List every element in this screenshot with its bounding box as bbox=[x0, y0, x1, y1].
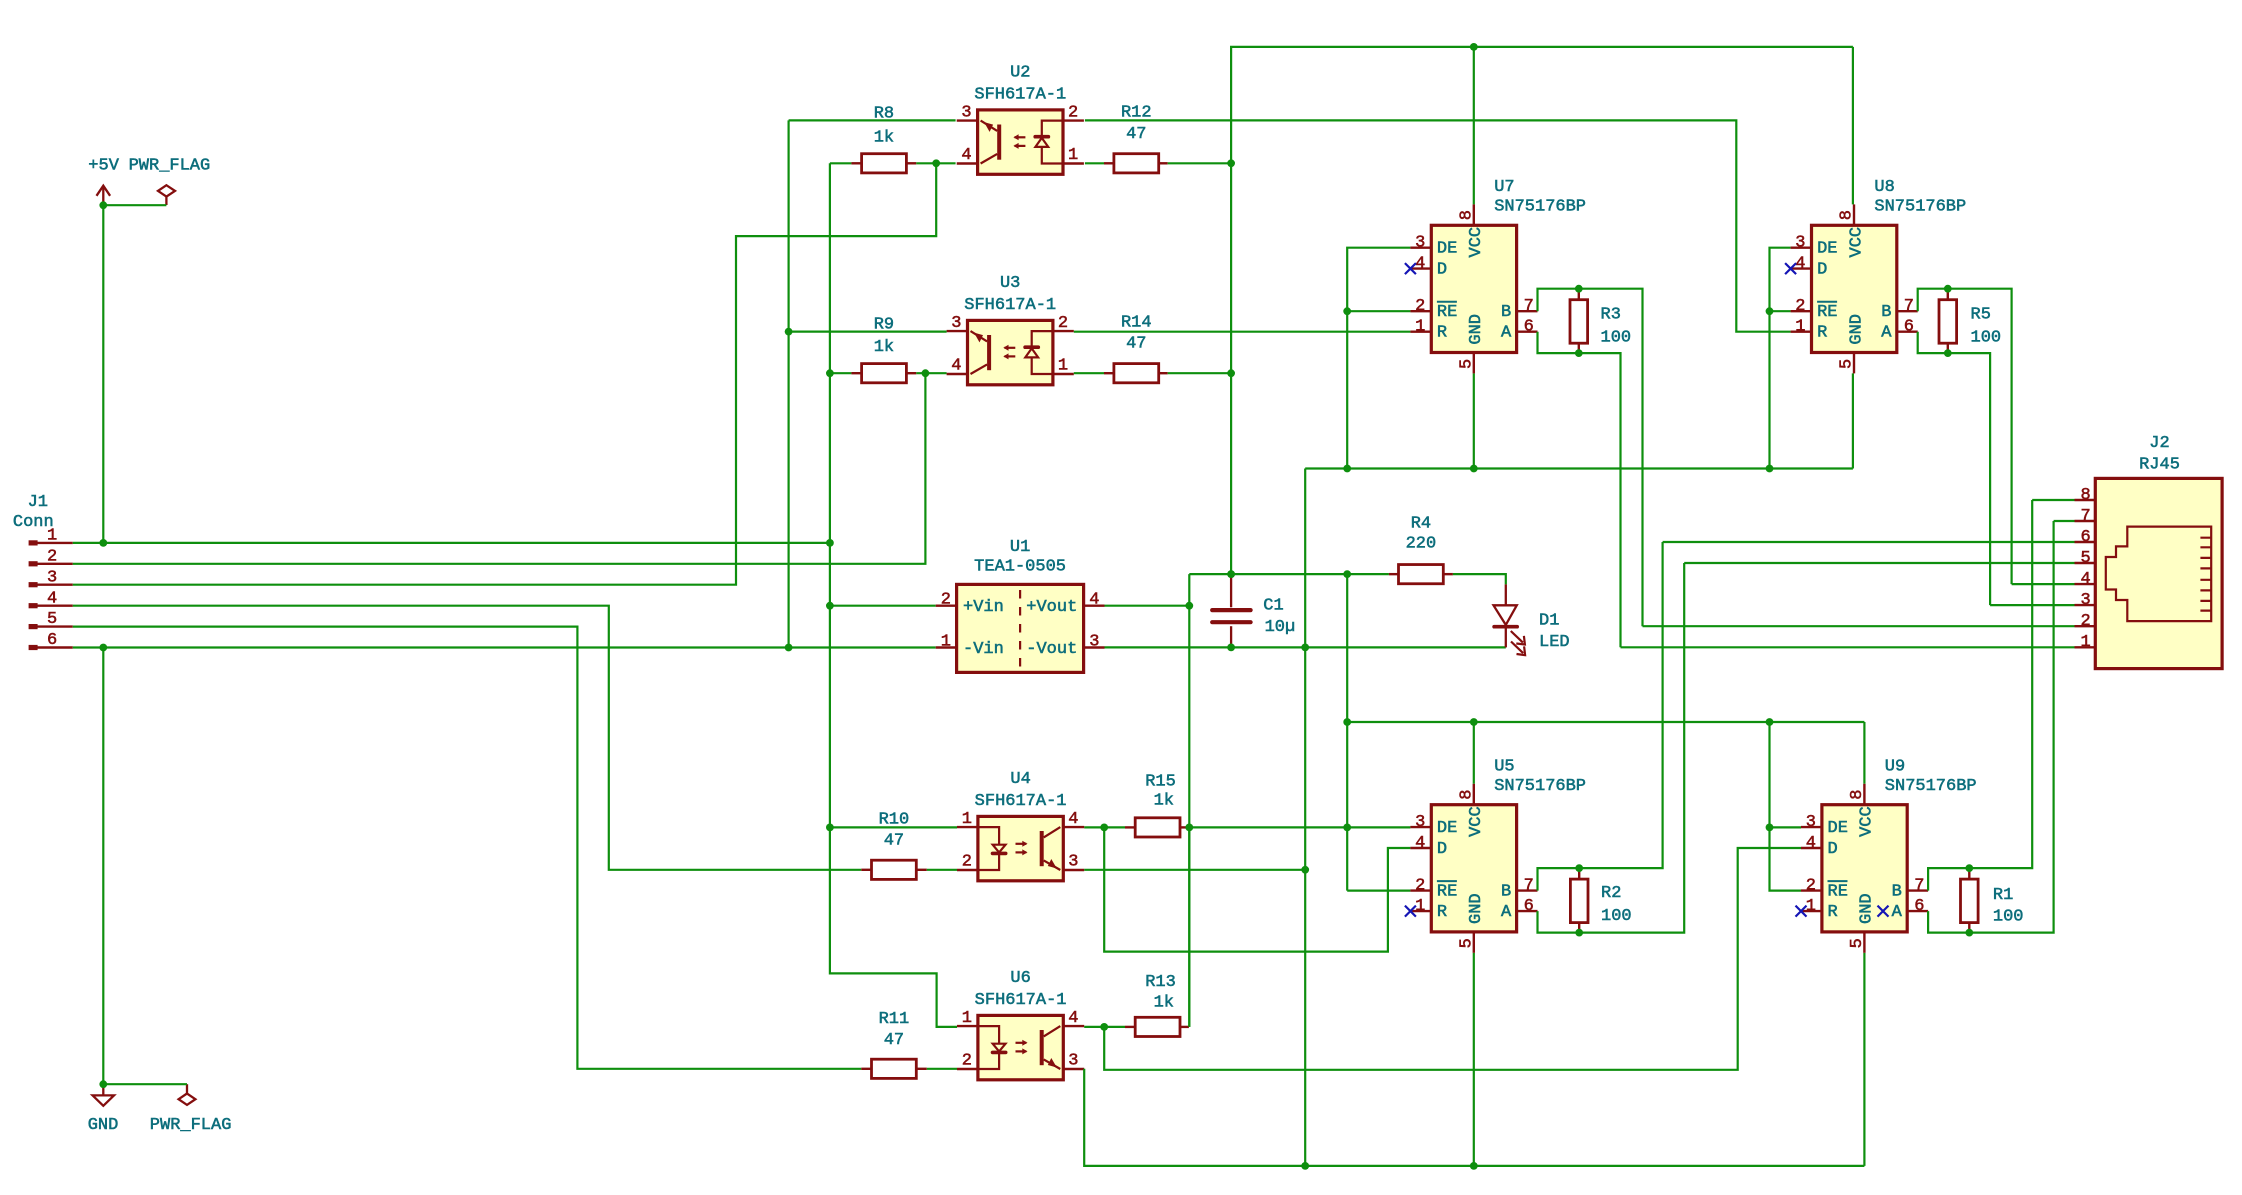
junction +5V at U1 +Vin row bbox=[826, 602, 834, 610]
opto-coupler U6 body bbox=[978, 1015, 1063, 1079]
resistor R15 body bbox=[1135, 818, 1180, 837]
svg-text:2: 2 bbox=[962, 853, 972, 872]
svg-text:2: 2 bbox=[2080, 612, 2090, 631]
svg-text:R11: R11 bbox=[879, 1010, 910, 1029]
svg-text:4: 4 bbox=[1089, 591, 1099, 610]
connector J1 pin 4 bbox=[37, 605, 73, 607]
LED D1 emission arrows bbox=[1511, 631, 1525, 645]
svg-text:100: 100 bbox=[1601, 329, 1632, 348]
wire U8 DE/RE tie to GND2 rail bbox=[1770, 248, 1791, 469]
resistor R1 leads bbox=[1968, 868, 1970, 879]
wire U6 pin 4 to R13 bbox=[1084, 1026, 1125, 1028]
svg-text:5: 5 bbox=[47, 610, 57, 629]
svg-text:B: B bbox=[1501, 882, 1511, 901]
svg-text:RJ45: RJ45 bbox=[2139, 455, 2180, 474]
wire U9 DE/RE tie from VCC2 rail bbox=[1770, 722, 1802, 891]
wire emitter vertical bbox=[787, 120, 789, 647]
svg-text:7: 7 bbox=[1524, 877, 1534, 896]
svg-text:C1: C1 bbox=[1263, 597, 1283, 616]
power flag PWR_FLAG top bbox=[158, 185, 175, 205]
svg-text:R: R bbox=[1437, 903, 1447, 922]
svg-text:U6: U6 bbox=[1010, 969, 1030, 988]
junction GND at J1 pin6 bbox=[99, 644, 107, 652]
svg-text:2: 2 bbox=[1058, 314, 1068, 333]
svg-text:R13: R13 bbox=[1145, 973, 1176, 992]
svg-text:8: 8 bbox=[2080, 486, 2090, 505]
svg-text:D: D bbox=[1817, 260, 1827, 279]
junction U7 RE tie bbox=[1343, 307, 1351, 315]
connector J2 pin 5 bbox=[2075, 562, 2096, 564]
wire R13 up to pull-up node bbox=[1188, 827, 1190, 1027]
svg-text:A: A bbox=[1501, 903, 1512, 922]
power flag PWR_FLAG bottom bbox=[179, 1084, 196, 1105]
junction GND node bbox=[99, 1080, 107, 1088]
junction VCC rail at U7 pin8 bbox=[1470, 43, 1478, 51]
svg-text:4: 4 bbox=[1415, 834, 1425, 853]
svg-text:J2: J2 bbox=[2149, 434, 2169, 453]
svg-text:GND: GND bbox=[1467, 314, 1486, 345]
wire U8 pin 5 to GND2 rail bbox=[1852, 373, 1854, 468]
transceiver U7 left pin stubs bbox=[1410, 248, 1431, 332]
svg-text:D: D bbox=[1437, 840, 1447, 859]
wire U5 RE from tie bbox=[1347, 889, 1410, 891]
transceiver U7 right pin stubs bbox=[1517, 311, 1538, 332]
junction R1 top bbox=[1965, 864, 1973, 872]
opto-coupler U3 pin stubs bbox=[947, 331, 1074, 374]
connector J2 pin 2 bbox=[2075, 625, 2096, 627]
opto-coupler U2 light arrows bbox=[1015, 136, 1026, 138]
svg-text:1k: 1k bbox=[1154, 994, 1174, 1013]
wire VCC2 rail bbox=[1347, 721, 1864, 723]
junction +5V at R9 left bbox=[826, 369, 834, 377]
svg-text:4: 4 bbox=[1068, 1009, 1078, 1028]
svg-text:4: 4 bbox=[951, 357, 961, 376]
wire U1 +Vout to +5Viso riser bbox=[1105, 605, 1190, 607]
svg-text:1: 1 bbox=[1806, 897, 1816, 916]
svg-text:7: 7 bbox=[1914, 877, 1924, 896]
svg-text:TEA1-0505: TEA1-0505 bbox=[974, 558, 1066, 577]
wire GND to PWR_FLAG bbox=[103, 1083, 187, 1085]
wire R12 to +5Viso riser bbox=[1168, 162, 1231, 164]
resistor R14 leads bbox=[1104, 372, 1114, 374]
DC-DC converter U1 body bbox=[957, 584, 1084, 672]
junction riser at C1 top rail bbox=[1227, 570, 1235, 578]
svg-text:1: 1 bbox=[1415, 897, 1425, 916]
svg-text:1: 1 bbox=[2080, 633, 2090, 652]
wire U7 B to R3 top rail bbox=[1538, 289, 1643, 627]
svg-text:DE: DE bbox=[1817, 240, 1837, 259]
svg-text:R4: R4 bbox=[1411, 515, 1431, 534]
svg-text:R15: R15 bbox=[1145, 773, 1176, 792]
wire J1 pin 5 to R11 bbox=[73, 627, 862, 1069]
wire U8 A to R5 bottom rail bbox=[1918, 332, 1990, 605]
svg-text:R2: R2 bbox=[1601, 884, 1621, 903]
junction R9 output / J1 pin2 riser bbox=[922, 369, 930, 377]
resistor R4 leads bbox=[1389, 573, 1399, 575]
wire J2 pin 6 from U5 B bbox=[1663, 541, 2075, 543]
svg-text:8: 8 bbox=[1848, 789, 1867, 799]
svg-text:R3: R3 bbox=[1601, 306, 1621, 325]
svg-text:GND: GND bbox=[1467, 893, 1486, 924]
svg-text:U3: U3 bbox=[1000, 274, 1020, 293]
svg-text:1: 1 bbox=[962, 1009, 972, 1028]
junction VCC2 at U9 tie bbox=[1766, 718, 1774, 726]
svg-text:VCC: VCC bbox=[1847, 227, 1866, 258]
junction +5V node bbox=[99, 201, 107, 209]
wire R9 to U3 pin 4 bbox=[916, 372, 946, 374]
wire +5V to R8 bbox=[830, 162, 852, 164]
svg-text:4: 4 bbox=[2080, 570, 2090, 589]
svg-text:4: 4 bbox=[1795, 255, 1805, 274]
resistor R3 leads bbox=[1578, 289, 1580, 300]
svg-text:1k: 1k bbox=[1154, 792, 1174, 811]
transceiver U5 top pin 8 stub bbox=[1473, 784, 1475, 805]
transceiver U8 right pin stubs bbox=[1897, 311, 1918, 332]
connector J1 pin 3 bbox=[37, 584, 73, 586]
no-connect X inside U9 near pin A bbox=[1878, 906, 1889, 917]
resistor R8 body bbox=[862, 154, 907, 173]
wire J2 pin 4 from U8 B bbox=[2012, 583, 2075, 585]
wire U5 DE/pullup rail bbox=[1189, 826, 1410, 828]
junction U5 DE tie bbox=[1343, 824, 1351, 832]
junction U4 pin3 at GND2 riser bbox=[1301, 866, 1309, 874]
wire U1 -Vout iso ground rail bbox=[1105, 646, 1506, 648]
wire J2 pin 1 from U7 A bbox=[1621, 646, 2075, 648]
connector J2 jack symbol bbox=[2106, 527, 2211, 622]
opto-coupler U6 LED bbox=[978, 1026, 999, 1069]
svg-text:GND: GND bbox=[1858, 893, 1877, 924]
svg-text:1: 1 bbox=[1068, 146, 1078, 165]
svg-text:R: R bbox=[1437, 324, 1447, 343]
connector J2 pin 4 bbox=[2075, 583, 2096, 585]
svg-text:R1: R1 bbox=[1993, 886, 2013, 905]
wire U2/U3 emitter common to GND bbox=[789, 119, 956, 121]
svg-text:1: 1 bbox=[1795, 318, 1805, 337]
svg-text:3: 3 bbox=[961, 103, 971, 122]
svg-text:SN75176BP: SN75176BP bbox=[1494, 777, 1586, 796]
svg-text:PWR_FLAG: PWR_FLAG bbox=[129, 156, 211, 175]
svg-text:3: 3 bbox=[2080, 591, 2090, 610]
resistor R9 body bbox=[862, 364, 907, 383]
svg-text:6: 6 bbox=[1524, 318, 1534, 337]
wire U4 pin 4 to R15 bbox=[1084, 826, 1125, 828]
connector J2 RJ45 body bbox=[2095, 478, 2222, 668]
wire U7 pin 5 to GND2 rail bbox=[1473, 373, 1475, 468]
junction R5 top bbox=[1944, 285, 1952, 293]
junction R1 bottom bbox=[1965, 929, 1973, 937]
power symbol +5V bbox=[97, 186, 111, 205]
wire U9 DE from tie bbox=[1770, 826, 1802, 828]
junction C1 bottom bbox=[1227, 644, 1235, 652]
opto-coupler U4 phototransistor bbox=[1040, 831, 1044, 866]
opto-coupler U4 LED bbox=[978, 827, 999, 870]
svg-text:U9: U9 bbox=[1885, 757, 1905, 776]
transceiver U9 top pin 8 stub bbox=[1863, 784, 1865, 805]
transceiver U7 top pin 8 stub bbox=[1473, 204, 1475, 225]
svg-text:R14: R14 bbox=[1121, 313, 1152, 332]
svg-text:8: 8 bbox=[1457, 789, 1476, 799]
svg-text:D: D bbox=[1828, 840, 1838, 859]
wire J2 pin 5 from U5 A bbox=[1684, 562, 2074, 564]
wire U8 B to R5 top rail bbox=[1918, 289, 2012, 584]
junction R3 top bbox=[1575, 285, 1583, 293]
wire U5 B to R2 top rail bbox=[1538, 542, 1663, 891]
svg-text:D1: D1 bbox=[1539, 611, 1559, 630]
wire U5 A to R2 bottom rail bbox=[1538, 563, 1685, 933]
svg-text:6: 6 bbox=[2080, 528, 2090, 547]
svg-text:1: 1 bbox=[962, 810, 972, 829]
wire U3 pin 1 to R14 bbox=[1074, 372, 1104, 374]
wire J1 pin 3 to U2 output node bbox=[73, 163, 936, 584]
svg-text:4: 4 bbox=[1068, 810, 1078, 829]
opto-coupler U3 body bbox=[968, 320, 1053, 384]
svg-text:A: A bbox=[1881, 324, 1892, 343]
svg-text:47: 47 bbox=[884, 832, 904, 851]
svg-text:3: 3 bbox=[1068, 1052, 1078, 1071]
junction VCC2 rail start bbox=[1343, 718, 1351, 726]
wire U3 pin 3 to emitter vertical bbox=[789, 331, 947, 333]
resistor R2 body bbox=[1570, 879, 1588, 923]
svg-text:3: 3 bbox=[951, 314, 961, 333]
junction U8 RE tie bbox=[1766, 307, 1774, 315]
svg-text:SFH617A-1: SFH617A-1 bbox=[975, 792, 1067, 811]
svg-text:DE: DE bbox=[1437, 240, 1457, 259]
wire U9 B to R1 top rail bbox=[1928, 500, 2032, 891]
junction U6 pin4 node bbox=[1100, 1023, 1108, 1031]
resistor R14 body bbox=[1114, 364, 1159, 383]
wire U5 pin 5 to GND2 bottom rail bbox=[1473, 953, 1475, 1166]
wire GND2 rail upper (U7/U8 ground) bbox=[1305, 467, 1853, 469]
svg-text:+Vin: +Vin bbox=[963, 598, 1004, 617]
resistor R15 leads bbox=[1125, 826, 1135, 828]
svg-text:A: A bbox=[1892, 903, 1903, 922]
svg-text:-Vin: -Vin bbox=[963, 640, 1004, 659]
resistor R10 leads bbox=[861, 869, 871, 871]
svg-text:1k: 1k bbox=[874, 338, 894, 357]
svg-text:R5: R5 bbox=[1971, 306, 1991, 325]
resistor R13 leads bbox=[1125, 1026, 1135, 1028]
svg-text:A: A bbox=[1501, 324, 1512, 343]
svg-text:1: 1 bbox=[1058, 357, 1068, 376]
junction GND2 bottom at U5 GND bbox=[1470, 1162, 1478, 1170]
svg-text:5: 5 bbox=[1848, 938, 1867, 948]
svg-text:2: 2 bbox=[1795, 297, 1805, 316]
svg-text:DE: DE bbox=[1828, 819, 1848, 838]
wire R11 to U6 pin 2 bbox=[927, 1068, 957, 1070]
resistor R13 body bbox=[1135, 1017, 1180, 1036]
svg-text:R: R bbox=[1817, 324, 1827, 343]
wire +5V vertical R8/R9/U4/U6 feed bbox=[830, 163, 957, 1027]
svg-text:1k: 1k bbox=[874, 128, 894, 147]
svg-text:5: 5 bbox=[1457, 359, 1476, 369]
junction +5V vertical at J1 pin1 row bbox=[826, 539, 834, 547]
svg-text:3: 3 bbox=[1415, 234, 1425, 253]
wire GND2 riser bbox=[1304, 469, 1306, 1166]
svg-text:7: 7 bbox=[2080, 507, 2090, 526]
resistor R4 body bbox=[1399, 565, 1444, 584]
connector J2 pin 8 bbox=[2075, 499, 2096, 501]
svg-text:U4: U4 bbox=[1010, 770, 1030, 789]
svg-text:100: 100 bbox=[1993, 908, 2024, 927]
svg-text:2: 2 bbox=[962, 1052, 972, 1071]
connector J1 pin 1 bbox=[37, 542, 73, 544]
junction VCC2 at U5 pin8 bbox=[1470, 718, 1478, 726]
svg-text:SN75176BP: SN75176BP bbox=[1494, 198, 1586, 217]
junction R5 bottom bbox=[1944, 349, 1952, 357]
junction GND / opto emitter drop bbox=[785, 644, 793, 652]
no-connect X on U7 pin 4 bbox=[1405, 263, 1416, 274]
wire +5V to U1 +Vin bbox=[830, 605, 936, 607]
connector J1 pin 2 bbox=[37, 563, 73, 565]
svg-text:PWR_FLAG: PWR_FLAG bbox=[150, 1116, 232, 1135]
wire U7 DE/RE tie to GND2 rail bbox=[1347, 248, 1410, 469]
svg-text:R: R bbox=[1828, 903, 1838, 922]
transceiver U8 bottom pin 5 stub bbox=[1853, 353, 1855, 374]
wire +5V to U4 pin 1 bbox=[830, 826, 957, 828]
wire U4 output down to U5 D route bbox=[1104, 827, 1410, 951]
opto-coupler U3 phototransistor bbox=[987, 335, 991, 370]
svg-text:RE: RE bbox=[1828, 882, 1848, 901]
svg-text:5: 5 bbox=[1838, 359, 1857, 369]
svg-text:1: 1 bbox=[1415, 318, 1425, 337]
junction R2 bottom bbox=[1575, 929, 1583, 937]
wire U2 pin 2 to U8 R input bbox=[1085, 120, 1791, 331]
svg-text:7: 7 bbox=[1524, 297, 1534, 316]
svg-text:2: 2 bbox=[1415, 877, 1425, 896]
transceiver U8 top pin 8 stub bbox=[1853, 204, 1855, 225]
wire J2 pin 3 from U8 A bbox=[1990, 604, 2074, 606]
junction +5V at U4 pin1 bbox=[826, 824, 834, 832]
svg-text:DE: DE bbox=[1437, 819, 1457, 838]
wire J1 pin 1 (+5V) to +5V vertical bbox=[73, 542, 830, 544]
svg-text:U7: U7 bbox=[1494, 178, 1514, 197]
no-connect X on U9 pin 1 bbox=[1796, 906, 1807, 917]
transceiver U5 left pin stubs bbox=[1410, 827, 1431, 911]
svg-text:SN75176BP: SN75176BP bbox=[1885, 777, 1977, 796]
junction R14 at +5Viso riser bbox=[1227, 369, 1235, 377]
wire R10 to U4 pin 2 bbox=[927, 869, 957, 871]
resistor R8 leads bbox=[851, 162, 861, 164]
wire J2 pin 8 from U9 B bbox=[2032, 499, 2074, 501]
svg-text:8: 8 bbox=[1838, 210, 1857, 220]
wire U6 pin 3 down to GND2 bottom rail bbox=[1084, 1069, 1864, 1166]
svg-text:VCC: VCC bbox=[1858, 806, 1877, 837]
svg-text:SFH617A-1: SFH617A-1 bbox=[974, 85, 1066, 104]
svg-text:6: 6 bbox=[1914, 897, 1924, 916]
opto-coupler U2 phototransistor bbox=[997, 125, 1001, 160]
wire +5V down to J1 pin 1 bbox=[102, 205, 104, 543]
resistor R5 leads bbox=[1947, 289, 1949, 300]
RS-485 transceiver U5 body bbox=[1431, 805, 1516, 932]
transceiver U7 bottom pin 5 stub bbox=[1473, 353, 1475, 374]
junction U7 GND at GND2 rail bbox=[1470, 465, 1478, 473]
svg-text:1: 1 bbox=[941, 632, 951, 651]
svg-text:2: 2 bbox=[1806, 877, 1816, 896]
junction R3 bottom bbox=[1575, 349, 1583, 357]
svg-text:3: 3 bbox=[1795, 234, 1805, 253]
connector J2 pin 6 bbox=[2075, 541, 2096, 543]
svg-text:7: 7 bbox=[1904, 297, 1914, 316]
svg-text:B: B bbox=[1892, 882, 1902, 901]
svg-text:RE: RE bbox=[1437, 303, 1457, 322]
wire VCC2 drop from iso +5V rail bbox=[1346, 574, 1348, 890]
U1 divider dashed line bbox=[1019, 590, 1021, 667]
wire U2 pin 1 to R12 bbox=[1085, 162, 1104, 164]
svg-text:8: 8 bbox=[1457, 210, 1476, 220]
junction U8 DE/RE at GND2 rail bbox=[1766, 465, 1774, 473]
wire iso +5V rail (C1 top) bbox=[1189, 573, 1389, 575]
transceiver U8 left pin stubs bbox=[1791, 248, 1812, 332]
wire VCC rail drop to U8 pin 8 bbox=[1852, 47, 1854, 205]
junction emitter vertical at U3 pin3 bbox=[785, 328, 793, 336]
svg-text:U5: U5 bbox=[1494, 757, 1514, 776]
svg-text:GND: GND bbox=[88, 1116, 119, 1135]
wire J1 pin 6 down to GND bbox=[102, 648, 104, 1085]
svg-text:3: 3 bbox=[1806, 813, 1816, 832]
wire J1 pin 6 (GND) to U1 -Vin bbox=[73, 646, 936, 648]
svg-text:LED: LED bbox=[1539, 633, 1570, 652]
transceiver U9 right pin stubs bbox=[1907, 891, 1928, 912]
wire R8 to U2 pin 4 bbox=[916, 162, 955, 164]
opto-coupler U2 body bbox=[978, 110, 1063, 174]
svg-text:+Vout: +Vout bbox=[1026, 598, 1077, 617]
connector J1 pin 6 bbox=[37, 646, 73, 648]
svg-text:5: 5 bbox=[1457, 938, 1476, 948]
transceiver U5 right pin stubs bbox=[1517, 891, 1538, 912]
opto-coupler U4 pin stubs bbox=[957, 827, 1084, 870]
svg-text:220: 220 bbox=[1406, 535, 1437, 554]
svg-text:RE: RE bbox=[1817, 303, 1837, 322]
wire U6 output down to U9 D route bbox=[1104, 848, 1801, 1070]
junction GND2 bottom at riser bbox=[1301, 1162, 1309, 1170]
connector J1 pin 5 bbox=[37, 625, 73, 627]
no-connect X on U5 pin 1 bbox=[1405, 906, 1416, 917]
wire J2 pin 7 from U9 A bbox=[2054, 520, 2075, 522]
LED D1 bbox=[1494, 584, 1517, 647]
svg-text:100: 100 bbox=[1601, 907, 1632, 926]
connector J2 pin 7 bbox=[2075, 520, 2096, 522]
wire VCC rail drop to U7 pin 8 bbox=[1473, 47, 1475, 205]
svg-text:B: B bbox=[1881, 303, 1891, 322]
svg-text:2: 2 bbox=[47, 547, 57, 566]
junction R15 / R13 pull-up node bbox=[1185, 824, 1193, 832]
svg-text:100: 100 bbox=[1971, 329, 2002, 348]
svg-text:R10: R10 bbox=[879, 811, 910, 830]
resistor R3 body bbox=[1570, 300, 1588, 344]
connector J2 pin 1 bbox=[2075, 646, 2096, 648]
junction iso ground at GND2 riser bbox=[1301, 644, 1309, 652]
wire U9 A to R1 bottom rail bbox=[1928, 521, 2054, 933]
resistor R5 body bbox=[1939, 300, 1957, 344]
transceiver U9 bottom pin 5 stub bbox=[1863, 932, 1865, 953]
svg-text:B: B bbox=[1501, 303, 1511, 322]
wire R4 to D1 bbox=[1453, 574, 1506, 584]
wire J2 pin 2 from U7 B bbox=[1643, 625, 2075, 627]
svg-text:3: 3 bbox=[1415, 813, 1425, 832]
opto-coupler U3 light arrows bbox=[1005, 347, 1016, 349]
svg-text:5: 5 bbox=[2080, 549, 2090, 568]
resistor R2 leads bbox=[1578, 868, 1580, 879]
resistor R12 body bbox=[1114, 154, 1159, 173]
svg-text:1: 1 bbox=[47, 527, 57, 546]
junction U9 DE tie bbox=[1766, 824, 1774, 832]
junction R2 top bbox=[1575, 864, 1583, 872]
svg-text:U2: U2 bbox=[1010, 63, 1030, 82]
wire U3 pin 2 to U7 R input bbox=[1074, 331, 1411, 333]
svg-text:2: 2 bbox=[1068, 103, 1078, 122]
svg-text:4: 4 bbox=[1806, 834, 1816, 853]
svg-text:3: 3 bbox=[1068, 853, 1078, 872]
